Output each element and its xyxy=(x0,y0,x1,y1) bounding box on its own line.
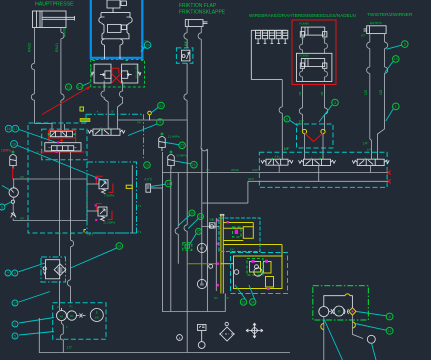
svg-text:KB: KB xyxy=(323,38,327,41)
svg-text:1/4": 1/4" xyxy=(363,142,369,146)
svg-text:kW: kW xyxy=(95,316,99,320)
svg-text:8: 8 xyxy=(389,315,391,319)
svg-text:19: 19 xyxy=(394,57,398,61)
svg-text:T: T xyxy=(85,151,87,155)
svg-text:B7: B7 xyxy=(200,247,204,251)
svg-text:FRIKTION FLAP: FRIKTION FLAP xyxy=(179,3,217,9)
svg-text:11: 11 xyxy=(388,329,392,333)
svg-text:2B: 2B xyxy=(298,92,302,96)
svg-text:FL: FL xyxy=(71,232,75,236)
svg-text:PA: PA xyxy=(138,121,142,125)
svg-text:M6: M6 xyxy=(206,168,210,172)
svg-text:3: 3 xyxy=(334,101,336,105)
svg-text:KOMBI: KOMBI xyxy=(299,22,308,26)
svg-text:1": 1" xyxy=(66,325,69,329)
svg-text:HP2E: HP2E xyxy=(231,168,239,172)
svg-text:HP3: HP3 xyxy=(248,177,254,181)
svg-text:4: 4 xyxy=(14,271,16,275)
svg-text:HP1: HP1 xyxy=(87,233,93,237)
svg-text:WT: WT xyxy=(361,34,365,38)
svg-text:5: 5 xyxy=(404,42,406,46)
svg-text:NO: NO xyxy=(80,108,84,112)
svg-text:7: 7 xyxy=(7,271,9,275)
svg-text:6: 6 xyxy=(1,205,3,209)
svg-text:WIREBRAKE/DRAHTBREMSE: WIREBRAKE/DRAHTBREMSE xyxy=(249,13,314,18)
svg-text:17: 17 xyxy=(13,301,17,305)
svg-text:3/4": 3/4" xyxy=(230,248,235,252)
svg-text:0.9MPa: 0.9MPa xyxy=(177,154,188,158)
svg-text:13MPa: 13MPa xyxy=(1,149,11,153)
svg-text:1.5": 1.5" xyxy=(67,346,73,350)
svg-text:1/4": 1/4" xyxy=(225,296,230,300)
svg-text:HAUPTPRESSE: HAUPTPRESSE xyxy=(35,2,74,8)
svg-text:NEEDLES/NADELN: NEEDLES/NADELN xyxy=(314,13,356,18)
svg-text:18: 18 xyxy=(7,127,11,131)
svg-text:RA/22: RA/22 xyxy=(28,42,32,52)
svg-text:1/2": 1/2" xyxy=(299,120,305,124)
svg-text:13: 13 xyxy=(67,85,71,89)
svg-text:P1: P1 xyxy=(70,305,74,309)
svg-text:34: 34 xyxy=(251,300,255,304)
svg-text:32: 32 xyxy=(199,215,203,219)
svg-text:5: 5 xyxy=(14,334,16,338)
svg-text:A B: A B xyxy=(275,155,279,159)
svg-text:4/16": 4/16" xyxy=(252,168,259,172)
svg-text:31: 31 xyxy=(159,104,163,108)
svg-text:33: 33 xyxy=(242,300,246,304)
svg-text:T1: T1 xyxy=(138,230,142,234)
svg-text:B8: B8 xyxy=(200,283,204,287)
svg-text:AK: AK xyxy=(60,315,64,319)
svg-text:N4: N4 xyxy=(214,296,218,300)
svg-text:16: 16 xyxy=(12,142,16,146)
svg-text:2: 2 xyxy=(14,322,16,326)
svg-text:1/4": 1/4" xyxy=(284,147,289,151)
svg-text:15: 15 xyxy=(117,244,121,248)
svg-text:18: 18 xyxy=(166,182,170,186)
svg-text:14: 14 xyxy=(78,85,82,89)
svg-text:1/4": 1/4" xyxy=(367,148,372,152)
svg-text:A: A xyxy=(97,110,99,114)
svg-text:6: 6 xyxy=(286,117,288,121)
svg-text:T1: T1 xyxy=(138,204,142,208)
svg-text:KOMBI: KOMBI xyxy=(299,54,308,58)
svg-text:20: 20 xyxy=(180,144,184,148)
svg-text:HP: HP xyxy=(20,217,24,221)
svg-text:21: 21 xyxy=(192,163,196,167)
svg-text:B1: B1 xyxy=(70,314,74,318)
svg-text:4.0°C: 4.0°C xyxy=(144,178,153,182)
svg-text:7.5MPa: 7.5MPa xyxy=(104,194,115,198)
svg-text:KB: KB xyxy=(301,38,305,41)
svg-text:2B: 2B xyxy=(320,92,324,96)
svg-text:TWISTER/ZWIRNER: TWISTER/ZWIRNER xyxy=(367,12,413,18)
svg-text:11.6MPa: 11.6MPa xyxy=(168,135,180,139)
svg-text:E2-L6 MPa: E2-L6 MPa xyxy=(135,64,139,78)
svg-text:9: 9 xyxy=(159,120,161,124)
svg-text:10: 10 xyxy=(145,163,149,167)
svg-text:RA/11: RA/11 xyxy=(55,43,59,52)
svg-text:HP: HP xyxy=(20,175,24,179)
svg-text:30: 30 xyxy=(190,211,194,215)
svg-text:E: E xyxy=(96,311,98,315)
svg-text:RA/28: RA/28 xyxy=(63,27,67,37)
svg-text:FRIKTIONSKLAPPE: FRIKTIONSKLAPPE xyxy=(179,10,226,16)
svg-text:13-L6 MPa: 13-L6 MPa xyxy=(89,65,93,78)
svg-text:M: M xyxy=(257,271,260,275)
svg-text:31.5MPa: 31.5MPa xyxy=(103,221,115,225)
svg-text:M: M xyxy=(338,310,341,314)
svg-text:B: B xyxy=(112,110,114,114)
svg-text:29: 29 xyxy=(146,43,150,47)
svg-text:FH: FH xyxy=(57,232,61,236)
svg-text:125: 125 xyxy=(379,89,383,95)
svg-text:FE: FE xyxy=(57,305,61,309)
svg-text:1: 1 xyxy=(395,105,397,109)
svg-text:125: 125 xyxy=(364,89,368,95)
svg-text:17: 17 xyxy=(13,127,17,131)
svg-text:RA/78/78: RA/78/78 xyxy=(370,21,382,25)
svg-text:35: 35 xyxy=(197,230,201,234)
